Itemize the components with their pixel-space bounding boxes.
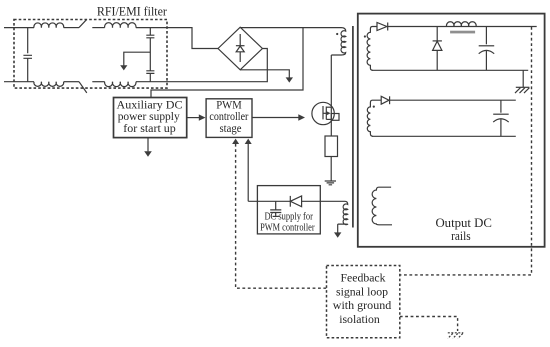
PWM controller stage box (206, 99, 252, 138)
MOSFET drain connection (326, 106, 331, 108)
filter capacitor in DC supply (275, 201, 277, 209)
switch S1 blade (top line) (79, 20, 87, 28)
signal ground (3-bar) (325, 181, 336, 185)
secondary 2 polarity dot (373, 106, 375, 108)
current sense resistor R1 (325, 136, 338, 157)
wire choke L1 to switch (bottom) (64, 81, 79, 83)
svg-text:Feedback: Feedback (341, 271, 386, 285)
diode inside bridge (239, 34, 241, 62)
svg-text:PWM controller: PWM controller (260, 222, 315, 233)
DC supply for PWM controller box (257, 186, 320, 234)
secondary 1 polarity dot (364, 35, 366, 37)
RFI/EMI filter enclosure (dashed box) (14, 20, 167, 89)
auxiliary winding on transformer (338, 201, 348, 224)
AC input line (bottom) (4, 81, 34, 83)
MOSFET tab rectangle (331, 114, 339, 121)
feedback box (dashed) (327, 266, 400, 338)
diode D1 in DC supply (289, 196, 291, 207)
MOSFET gate bar (322, 106, 324, 119)
freewheel diode D3 (436, 27, 438, 71)
output rail 1 return (372, 69, 528, 71)
Y-capacitor pair C2/C3 (149, 28, 151, 82)
output filter inductor L3 (446, 22, 476, 27)
MOSFET channel bar (325, 107, 327, 120)
output rail 2 (top) (390, 99, 516, 101)
X-capacitor C1 (27, 28, 29, 82)
svg-text:stage: stage (220, 121, 242, 135)
tap from DC bus down to auxiliary supply (151, 28, 303, 98)
common-mode choke L2 top winding (105, 23, 136, 28)
output capacitor C4 (485, 27, 487, 45)
MOSFET Q1 body circle (312, 102, 334, 124)
MOSFET body arrow (323, 112, 327, 114)
wire from PWM down-feed junction through DC supply box (248, 200, 345, 202)
primary polarity dot (336, 33, 338, 35)
svg-text:with ground: with ground (333, 298, 392, 312)
rectifier diode D2 (377, 23, 387, 31)
arrow auxiliary supply to PWM controller (187, 117, 199, 119)
MOSFET source connection (326, 118, 331, 120)
wire switch to choke L2 (top) (92, 27, 104, 29)
bridge rectifier BR1 (diamond) (218, 27, 262, 70)
common-mode choke L2 bottom winding (105, 82, 136, 87)
wire choke L1 to switch (top) (64, 27, 79, 29)
wire resistor to ground (330, 157, 332, 181)
feedback dashed line to PWM controller (236, 144, 327, 288)
feedback dashed line from output rail (400, 27, 532, 275)
spare secondary winding 3 (372, 187, 392, 225)
gate drive arrow PWM to MOSFET (252, 117, 299, 119)
auxiliary DC power supply box (114, 98, 187, 138)
output rail 1 (top) (388, 26, 537, 28)
ground arrow below auxiliary winding (337, 224, 339, 233)
drop to chassis ground (522, 70, 524, 87)
svg-text:isolation: isolation (339, 312, 380, 326)
wire bottom: choke L2 to bridge AC2 (136, 49, 267, 82)
output rail 2 return (372, 135, 516, 137)
output capacitor C5 (500, 100, 502, 113)
common-mode choke L1 bottom winding (34, 82, 64, 87)
chassis ground (output) (516, 86, 530, 88)
rectifier diode D4 (381, 96, 389, 104)
svg-text:RFI/EMI filter: RFI/EMI filter (97, 4, 168, 19)
chassis ground arrow inside filter (124, 52, 151, 65)
drain/source vertical wire through MOSFET (330, 55, 332, 136)
inductor core bar (gray) (450, 31, 475, 34)
Output DC rails enclosure (358, 14, 545, 247)
secondary winding 1 (367, 27, 377, 71)
wire top: choke L2 to bridge jog (136, 28, 218, 49)
DC+ bus from bridge top vertex (240, 27, 303, 29)
solid feed wire up to PWM box (247, 144, 249, 202)
svg-text:for start up: for start up (123, 121, 176, 135)
common-mode choke L1 top winding (34, 23, 64, 28)
svg-text:rails: rails (451, 228, 471, 243)
switch S1 blade (bottom line) (79, 82, 87, 93)
transformer T1 primary winding (303, 28, 346, 55)
wire switch to choke L2 (bottom) (92, 81, 104, 83)
AC input line (top) (4, 27, 34, 29)
feedback dashed line to isolated ground (400, 317, 458, 332)
DC- output of bridge to ground arrow (240, 70, 289, 78)
svg-text:signal loop: signal loop (336, 284, 388, 298)
ground arrow below auxiliary supply (147, 138, 149, 152)
isolated chassis ground (dashed) (448, 333, 464, 339)
transformer core (352, 26, 354, 228)
secondary winding 2 (367, 100, 381, 136)
